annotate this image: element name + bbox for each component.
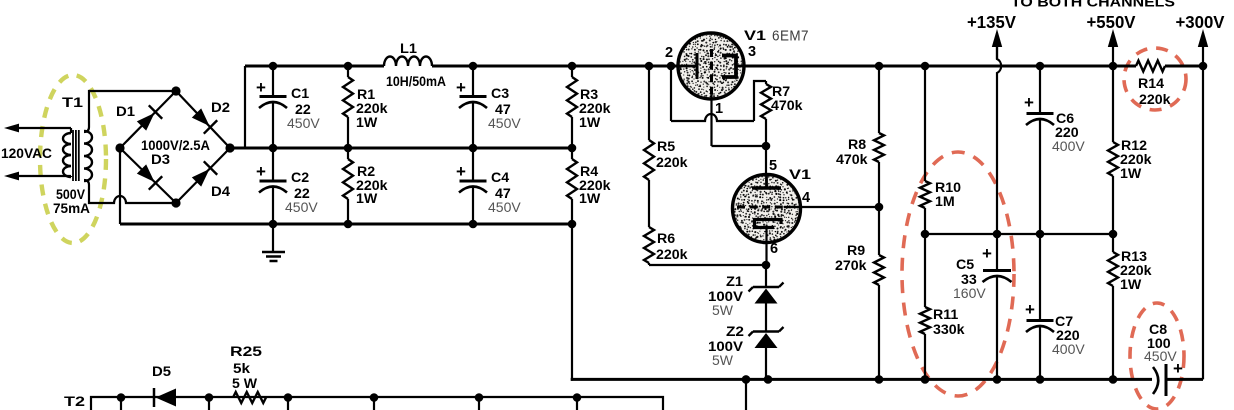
- junction dot +550V node: [1109, 62, 1118, 71]
- label Z2 value 100V: [708, 339, 744, 355]
- net label +135V: [967, 12, 1016, 32]
- highlight ellipse around T1: [40, 75, 106, 243]
- svg-text:450V: 450V: [488, 115, 521, 131]
- svg-text:V1: V1: [744, 28, 766, 44]
- label D5: [152, 364, 171, 380]
- label R11: [933, 307, 958, 323]
- label D1: [116, 104, 135, 120]
- label 1000V/2.5A: [141, 137, 210, 153]
- label R7 value 470k: [771, 98, 803, 114]
- label V1 (bottom tube): [789, 167, 811, 183]
- wire T2 winding line: [91, 397, 663, 410]
- junction dot T2 line x=288: [284, 393, 293, 410]
- svg-text:+550V: +550V: [1087, 12, 1136, 32]
- label C7 value 220: [1056, 328, 1080, 344]
- svg-text:C2: C2: [291, 170, 309, 186]
- label C7: [1055, 314, 1073, 330]
- junction dot R10 bottom: [921, 230, 930, 239]
- svg-text:400V: 400V: [1052, 138, 1085, 154]
- label R1 value 220k: [356, 101, 388, 117]
- label R25 value 5k: [233, 361, 250, 377]
- wire T1 secondary bottom lead with hop over negative wire: [84, 180, 176, 203]
- label 6EM7: [772, 29, 809, 45]
- resistor R6: [644, 227, 654, 265]
- label R13: [1121, 249, 1147, 265]
- label R4 rating 1W: [579, 191, 601, 207]
- label R25 rating 5W: [232, 376, 258, 392]
- label C8 plus: [1173, 359, 1183, 378]
- capacitor C4: [459, 148, 487, 224]
- label C8 rating 450V: [1144, 348, 1177, 364]
- wire ground rail: [120, 223, 572, 226]
- svg-text:160V: 160V: [953, 285, 986, 301]
- net label +550V: [1087, 12, 1136, 32]
- label R4: [580, 164, 598, 180]
- svg-text:T1: T1: [62, 95, 83, 111]
- zener Z1: [749, 265, 784, 331]
- label C1 value 22: [295, 102, 311, 118]
- svg-text:D2: D2: [211, 100, 230, 116]
- label D2: [211, 100, 230, 116]
- label Z1 rating 5W: [712, 302, 734, 318]
- label R2: [357, 164, 375, 180]
- pin label 6: [770, 241, 778, 257]
- label C4 rating 450V: [488, 199, 521, 215]
- capacitor C8: [1153, 364, 1166, 396]
- label R4 value 220k: [579, 178, 611, 194]
- highlight ellipse around R10 R11: [902, 152, 1014, 396]
- junction dot T2 line x=374: [370, 393, 379, 410]
- label R11 value 330k: [933, 322, 965, 338]
- svg-text:+135V: +135V: [967, 12, 1016, 32]
- wire top rail B+ (L1 to tube V1): [432, 65, 679, 68]
- svg-text:5W: 5W: [712, 302, 734, 318]
- capacitor C6: [1026, 66, 1054, 234]
- label C6 plus: [1024, 93, 1034, 112]
- wire top rail B+ (left of L1): [245, 65, 384, 68]
- label R9 value 270k: [835, 258, 867, 274]
- svg-text:R5: R5: [657, 139, 675, 155]
- svg-text:450V: 450V: [1144, 348, 1177, 364]
- svg-text:220k: 220k: [1139, 92, 1171, 108]
- junction dot C1 top: [269, 62, 278, 71]
- junction dot bridge left node: [115, 143, 124, 152]
- bridge side wire top-right: [176, 91, 230, 148]
- tube V1 top cathode: [679, 53, 697, 79]
- resistor R1: [343, 66, 353, 148]
- arrow +135V: [992, 29, 1002, 59]
- resistor R11: [920, 234, 930, 380]
- pin label 1: [715, 101, 723, 117]
- svg-text:5k: 5k: [233, 361, 250, 377]
- T1 core: [73, 130, 79, 181]
- label R7: [772, 84, 790, 100]
- svg-text:400V: 400V: [1052, 341, 1085, 357]
- tube V1 bottom cathode: [755, 220, 782, 266]
- junction dot bottom rail T2 feed: [742, 375, 751, 384]
- bridge side wire left-top: [120, 91, 176, 148]
- wire pin 4 line to R8 bottom: [800, 206, 879, 208]
- resistor R4: [567, 148, 577, 224]
- junction dot T2 line x=209: [205, 393, 214, 410]
- label C6 value 220: [1055, 125, 1079, 141]
- resistor R3: [567, 66, 577, 148]
- junction dot mid rail R1/R2: [344, 144, 353, 153]
- label C5 plus: [982, 244, 992, 263]
- svg-text:+: +: [456, 162, 466, 181]
- wire mid rail (C1 junction bus): [230, 147, 572, 150]
- svg-text:330k: 330k: [933, 322, 965, 338]
- junction dot R5 top: [645, 62, 654, 71]
- label C8: [1149, 322, 1167, 338]
- svg-text:1W: 1W: [579, 191, 601, 207]
- label C5: [956, 257, 974, 273]
- svg-text:D3: D3: [151, 152, 170, 168]
- label C2 plus: [256, 162, 266, 181]
- resistor R14: [1136, 61, 1165, 72]
- wire top rail B+ (R14 to +300V corner): [1165, 65, 1203, 68]
- label Z2: [726, 324, 744, 340]
- label L1: [400, 41, 417, 57]
- arrow +550V: [1108, 29, 1118, 66]
- junction dot T2 line x=577: [573, 393, 582, 410]
- junction dot pin 2: [667, 62, 676, 71]
- zener Z2: [749, 327, 784, 380]
- label Z2 rating 5W: [712, 352, 734, 368]
- pin label 2: [665, 45, 673, 61]
- label R12: [1121, 138, 1147, 154]
- junction dot R3 top: [568, 62, 577, 71]
- svg-text:1W: 1W: [579, 115, 601, 131]
- wire bridge left node down to ground rail: [119, 152, 121, 224]
- label C5 rating 160V: [953, 285, 986, 301]
- svg-text:6EM7: 6EM7: [772, 29, 809, 45]
- label C2 value 22: [294, 186, 310, 202]
- tube V1 top grid (pin 1 element): [710, 49, 713, 95]
- svg-text:L1: L1: [400, 41, 417, 57]
- svg-text:Z2: Z2: [726, 324, 744, 340]
- label R3 value 220k: [579, 101, 611, 117]
- junction dot R1 top: [344, 62, 353, 71]
- label R25: [230, 344, 262, 360]
- svg-text:D5: D5: [152, 364, 171, 380]
- tube V1 bottom grid (pin 4 element): [737, 206, 800, 209]
- wire pin1 to R7 bottom junction: [712, 145, 767, 147]
- T1 primary winding: [63, 128, 71, 177]
- diode D1: [137, 105, 162, 130]
- label R10 value 1M: [935, 194, 955, 210]
- svg-text:10H/50mA: 10H/50mA: [386, 73, 446, 89]
- resistor R2: [343, 148, 353, 224]
- label R14: [1138, 76, 1164, 92]
- tube V1 top section envelope: [678, 33, 744, 99]
- junction dot mid rail R3/R4: [568, 144, 577, 153]
- svg-text:+: +: [456, 78, 466, 97]
- capacitor C7: [1026, 234, 1054, 380]
- wire mid-right bus +135V node: [925, 233, 1113, 235]
- junction dot R10 top: [921, 62, 930, 71]
- label C7 plus: [1025, 300, 1035, 319]
- diode D4: [192, 161, 217, 186]
- wire bottom rail (to C8): [571, 378, 1152, 381]
- label C6: [1056, 111, 1074, 127]
- svg-text:470k: 470k: [771, 98, 803, 114]
- label C1: [291, 86, 309, 102]
- svg-text:6: 6: [770, 241, 778, 257]
- junction dot T2 line x=121: [117, 393, 126, 410]
- resistor R9: [874, 207, 884, 380]
- resistor R8: [874, 66, 884, 207]
- wire pin 5 lead: [765, 146, 767, 175]
- capacitor C5: [983, 234, 1012, 380]
- junction dot R12 bottom: [1109, 230, 1118, 239]
- svg-text:1W: 1W: [356, 115, 378, 131]
- label 10H/50mA: [386, 73, 446, 89]
- svg-text:4: 4: [802, 190, 810, 206]
- svg-text:1W: 1W: [1120, 166, 1142, 182]
- label V1 (top tube): [744, 28, 766, 44]
- label R1 rating 1W: [356, 115, 378, 131]
- label Z1 value 100V: [708, 289, 744, 305]
- label C8 value 100: [1147, 336, 1171, 352]
- junction dot R8 top: [875, 62, 884, 71]
- svg-text:1: 1: [715, 101, 723, 117]
- wire grid line up to R7 top: [754, 81, 766, 121]
- capacitor C2: [259, 148, 287, 224]
- svg-text:1W: 1W: [1120, 277, 1142, 293]
- highlight circle around R14: [1124, 48, 1186, 110]
- label T2: [64, 394, 85, 410]
- junction dot C3 top: [469, 62, 478, 71]
- tube V1 top plate: [722, 56, 743, 78]
- junction dot bridge top node: [171, 86, 180, 95]
- junction dot T2 line x=479: [475, 393, 484, 410]
- svg-text:5W: 5W: [712, 352, 734, 368]
- svg-text:D4: D4: [211, 184, 230, 200]
- label 120VAC: [1, 146, 52, 162]
- label 500V: [56, 187, 85, 203]
- tube V1 bottom section envelope: [733, 175, 801, 243]
- label Z1: [726, 274, 743, 290]
- label R13 rating 1W: [1120, 277, 1142, 293]
- junction dot R7 bottom / pin 5 node: [762, 142, 771, 151]
- svg-text:+: +: [256, 162, 266, 181]
- svg-text:220k: 220k: [656, 247, 688, 263]
- svg-text:+300V: +300V: [1176, 12, 1225, 32]
- ground: [262, 224, 285, 261]
- wire R4 column down to bottom rail: [571, 224, 573, 381]
- net label +300V: [1176, 12, 1225, 32]
- label R2 rating 1W: [356, 191, 378, 207]
- svg-text:450V: 450V: [488, 199, 521, 215]
- svg-text:R11: R11: [933, 307, 958, 323]
- label C1 plus: [256, 78, 266, 97]
- label R13 value 220k: [1120, 263, 1152, 279]
- net label TO BOTH CHANNELS: [1011, 0, 1175, 11]
- label C6 rating 400V: [1052, 138, 1085, 154]
- junction dot bottom rail R11 bottom: [921, 375, 930, 384]
- label R3 rating 1W: [579, 115, 601, 131]
- pin label 3: [748, 44, 756, 60]
- wire grid line with hop over pin1 lead: [671, 114, 754, 121]
- junction dot bottom rail C7 bottom: [1036, 375, 1045, 384]
- svg-text:C3: C3: [491, 86, 509, 102]
- junction dot +135V at bus: [993, 230, 1002, 239]
- label R14 value 220k: [1139, 92, 1171, 108]
- svg-text:R14: R14: [1138, 76, 1164, 92]
- resistor R7: [761, 81, 771, 146]
- junction dot bottom rail R9 bottom: [875, 375, 884, 384]
- label C1 rating 450V: [287, 115, 320, 131]
- svg-text:T2: T2: [64, 394, 85, 410]
- svg-text:C1: C1: [291, 86, 309, 102]
- svg-text:75mA: 75mA: [53, 201, 90, 217]
- resistor R5: [644, 66, 654, 227]
- pin label 4: [802, 190, 810, 206]
- label D4: [211, 184, 230, 200]
- label C4 plus: [456, 162, 466, 181]
- svg-text:120VAC: 120VAC: [1, 146, 52, 162]
- svg-text:220k: 220k: [656, 155, 688, 171]
- label R10: [935, 180, 961, 196]
- junction dot +300V node: [1199, 62, 1208, 71]
- resistor R10: [920, 66, 930, 234]
- svg-text:1W: 1W: [356, 191, 378, 207]
- pin label 5: [769, 158, 777, 174]
- label C4 value 47: [495, 186, 511, 202]
- junction dot bridge bottom node: [171, 198, 180, 207]
- label R3: [580, 87, 598, 103]
- label D3: [151, 152, 170, 168]
- wire +135V riser with hop over top rail: [997, 46, 1001, 234]
- wire +300V right edge down: [1202, 66, 1204, 379]
- wire cathode line R6 to pin6 node: [649, 264, 766, 266]
- label C3 value 47: [495, 102, 511, 118]
- label R2 value 220k: [356, 178, 388, 194]
- svg-text:1M: 1M: [935, 194, 955, 210]
- svg-text:C5: C5: [956, 257, 974, 273]
- junction dot R8 bottom pin4: [875, 203, 884, 212]
- T1 secondary winding: [84, 131, 92, 181]
- wire T1 secondary top to bridge top node: [84, 91, 176, 132]
- junction dot mid rail C3/C4: [469, 144, 478, 153]
- capacitor C3: [459, 66, 487, 148]
- label C2 rating 450V: [285, 199, 318, 215]
- svg-text:D1: D1: [116, 104, 135, 120]
- resistor R13: [1108, 234, 1118, 380]
- label C2: [291, 170, 309, 186]
- diode D3: [137, 164, 162, 189]
- junction dot bridge right node: [225, 143, 234, 152]
- svg-text:450V: 450V: [287, 115, 320, 131]
- junction dot C6 top: [1036, 62, 1045, 71]
- junction dot ground rail C4 bottom: [469, 220, 478, 229]
- label C5 value 33: [961, 272, 977, 288]
- label C4: [491, 170, 509, 186]
- junction dot ground rail R4 bottom: [568, 220, 577, 229]
- label R5 value 220k: [656, 155, 688, 171]
- wire down to lower supply section: [745, 379, 747, 410]
- svg-text:V1: V1: [789, 167, 811, 183]
- highlight ellipse around C8: [1130, 303, 1184, 409]
- svg-text:Z1: Z1: [726, 274, 743, 290]
- wire pin 1 lead down: [710, 95, 712, 146]
- junction dot bottom rail Z2 bottom: [764, 375, 773, 384]
- svg-text:2: 2: [665, 45, 673, 61]
- svg-text:450V: 450V: [285, 199, 318, 215]
- diode D5: [154, 388, 176, 407]
- tube V1 bottom plate: [752, 175, 781, 188]
- label R1: [357, 87, 375, 103]
- label R8: [848, 137, 866, 153]
- inductor L1: [384, 57, 432, 67]
- T1 primary lead top with arrow: [4, 124, 71, 133]
- svg-text:+: +: [982, 244, 992, 263]
- diode D2: [192, 108, 217, 133]
- svg-text:TO BOTH CHANNELS: TO BOTH CHANNELS: [1011, 0, 1175, 11]
- label R6 value 220k: [656, 247, 688, 263]
- svg-text:+: +: [1025, 300, 1035, 319]
- svg-text:+: +: [256, 78, 266, 97]
- wire grid line pin2 down: [670, 66, 672, 121]
- label R6: [657, 231, 675, 247]
- resistor R12: [1108, 66, 1118, 234]
- svg-text:270k: 270k: [835, 258, 867, 274]
- label R5: [657, 139, 675, 155]
- svg-text:R25: R25: [230, 344, 262, 360]
- junction dot mid rail C1/C2: [269, 144, 278, 153]
- bridge side wire bottom-right: [176, 148, 230, 203]
- wire top rail B+ (tube V1 to R14): [743, 65, 1136, 68]
- label R8 value 470k: [836, 152, 868, 168]
- junction dot ground rail C2 bottom: [269, 220, 278, 229]
- svg-text:C4: C4: [491, 170, 509, 186]
- junction dot bottom rail C5 bottom: [993, 375, 1002, 384]
- junction dot ground rail R2 bottom: [344, 220, 353, 229]
- svg-text:470k: 470k: [836, 152, 868, 168]
- svg-text:R8: R8: [848, 137, 866, 153]
- label R12 rating 1W: [1120, 166, 1142, 182]
- label C7 rating 400V: [1052, 341, 1085, 357]
- junction dot C6 bottom: [1036, 230, 1045, 239]
- label C3 rating 450V: [488, 115, 521, 131]
- arrow +300V: [1198, 29, 1208, 66]
- svg-text:1000V/2.5A: 1000V/2.5A: [141, 137, 210, 153]
- svg-text:R6: R6: [657, 231, 675, 247]
- junction dot bottom rail R13 bottom: [1109, 375, 1118, 384]
- svg-text:3: 3: [748, 44, 756, 60]
- capacitor C1: [259, 66, 287, 148]
- bridge side wire left-bottom: [120, 148, 176, 203]
- label R12 value 220k: [1120, 152, 1152, 168]
- transformer T1 label: [62, 95, 83, 111]
- label R9: [847, 243, 865, 259]
- wire bottom rail (C8 to right corner): [1166, 378, 1203, 381]
- wire bridge right node to mid rail and up to top rail: [234, 66, 245, 148]
- svg-text:5: 5: [769, 158, 777, 174]
- T1 primary lead bottom with arrow: [4, 172, 71, 181]
- label 75mA: [53, 201, 90, 217]
- label C3: [491, 86, 509, 102]
- junction dot pin 6 node: [762, 261, 771, 270]
- svg-text:5 W: 5 W: [232, 376, 258, 392]
- label C3 plus: [456, 78, 466, 97]
- resistor R25: [233, 392, 266, 403]
- svg-text:+: +: [1024, 93, 1034, 112]
- svg-text:R9: R9: [847, 243, 865, 259]
